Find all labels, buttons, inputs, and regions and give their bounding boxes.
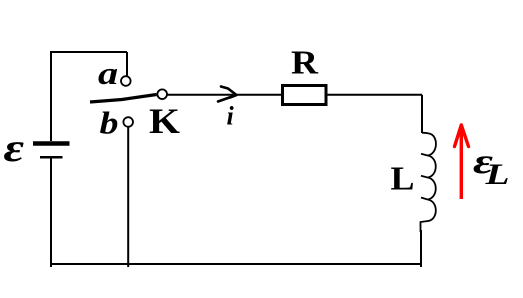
current arrow i head xyxy=(218,87,237,102)
node a contact circle xyxy=(121,76,131,86)
svg-text:K: K xyxy=(149,101,180,141)
node b contact circle xyxy=(123,117,133,127)
wire from inductor bottom to bottom wire xyxy=(420,230,422,267)
wire left vertical from top wire to battery plus plate xyxy=(50,51,52,141)
wire top horizontal from battery to node a xyxy=(51,51,127,53)
svg-text:R: R xyxy=(291,45,318,82)
battery E long plate xyxy=(33,141,70,146)
resistor R box xyxy=(283,86,327,105)
emf arrow eL shaft (red) xyxy=(460,130,463,199)
wire from resistor to right corner xyxy=(327,94,422,96)
switch K blade xyxy=(90,95,157,103)
svg-text:i: i xyxy=(227,102,235,131)
wire bottom horizontal xyxy=(51,263,422,265)
wire right vertical down to inductor xyxy=(421,95,423,133)
svg-text:ε: ε xyxy=(4,125,25,170)
svg-text:a: a xyxy=(98,56,118,91)
wire from switch pivot to resistor xyxy=(168,94,282,96)
emf arrow eL head (red) xyxy=(455,125,469,147)
svg-text:L: L xyxy=(484,158,509,191)
battery E short plate xyxy=(40,156,63,159)
wire left vertical from battery minus plate to bottom wire xyxy=(50,159,52,268)
wire vertical from contact b to bottom wire xyxy=(127,127,129,267)
inductor L coil xyxy=(421,133,436,232)
switch K pivot circle xyxy=(157,89,167,99)
wire vertical drop to contact a xyxy=(126,52,128,76)
svg-text:b: b xyxy=(100,105,119,141)
svg-text:L: L xyxy=(391,161,415,198)
